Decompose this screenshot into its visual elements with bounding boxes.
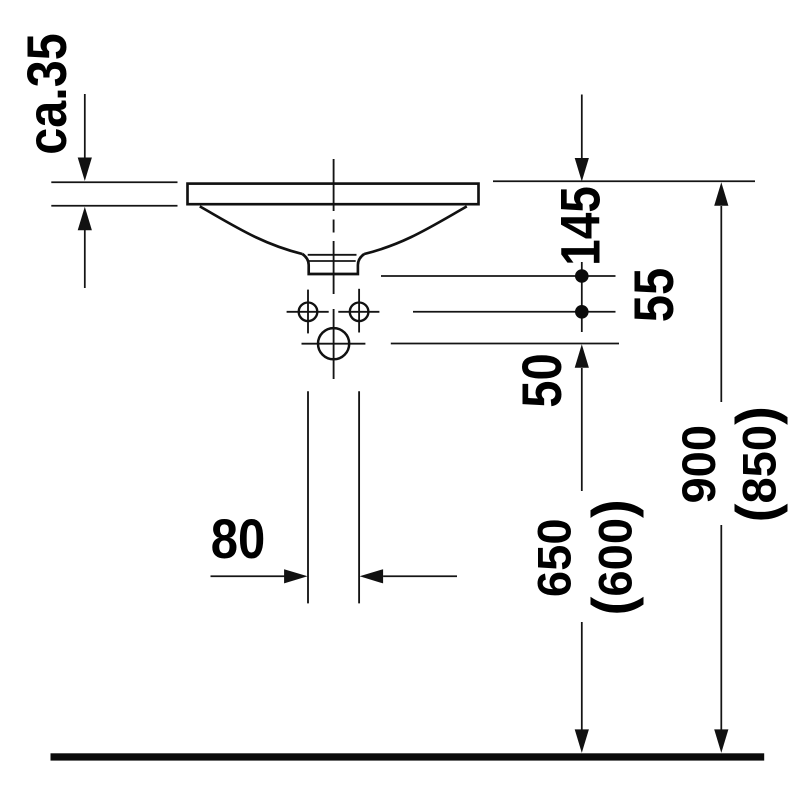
svg-text:ca.35: ca.35 — [17, 33, 79, 154]
svg-text:80: 80 — [211, 509, 266, 570]
svg-text:(600): (600) — [581, 499, 644, 615]
svg-text:145: 145 — [549, 186, 611, 266]
svg-text:900: 900 — [673, 425, 726, 504]
svg-text:50: 50 — [512, 353, 573, 408]
svg-text:55: 55 — [624, 268, 685, 323]
svg-text:(850): (850) — [724, 406, 787, 522]
svg-text:650: 650 — [529, 518, 582, 597]
